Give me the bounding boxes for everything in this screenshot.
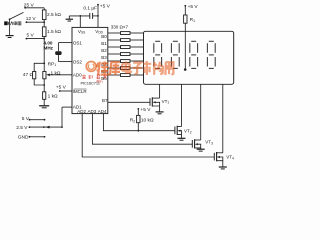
wire MCLR +5V [60, 90, 72, 92]
svg-text:lMCLR: lMCLR [73, 89, 88, 94]
transistor VT3 [192, 139, 200, 149]
wire OS2 pin [59, 61, 73, 63]
svg-text:1 kΩ: 1 kΩ [51, 70, 61, 76]
7-segment digit 3 [190, 41, 198, 68]
watermark slogan char da [103, 75, 106, 79]
node +5V top [97, 4, 99, 6]
wire AD1 down [61, 107, 63, 127]
junction cap +5V [97, 15, 99, 17]
7-segment digit 1 [154, 41, 162, 68]
wire 5V tap [26, 38, 44, 40]
wire B1 [108, 39, 121, 41]
wire B3 [108, 53, 121, 55]
label input power char1 [4, 21, 9, 25]
wire AD1 pin [62, 106, 72, 108]
wire B0 [108, 32, 121, 34]
wire B6 [108, 74, 121, 76]
chip U1 PIC16C711 [72, 27, 108, 113]
label input power char4 [18, 22, 21, 25]
wire R1 to display dp [184, 23, 186, 69]
node 5V [26, 38, 28, 40]
svg-text:AD0: AD0 [73, 72, 82, 77]
wire switch common down to ground [9, 19, 11, 35]
svg-text:10 kΩ: 10 kΩ [141, 118, 154, 124]
wire AD4 to VT2 gate [103, 114, 174, 131]
svg-text:+5 V: +5 V [100, 3, 111, 9]
watermark char chang [153, 62, 163, 75]
node 2.5V row left [29, 126, 31, 128]
resistor R(2.5k) [42, 10, 46, 20]
node 25V [24, 7, 26, 9]
wire crystal branch lower [58, 55, 60, 62]
arrow AD1 to 2.5V row [45, 126, 49, 129]
svg-text:5 V: 5 V [22, 116, 30, 122]
watermark slogan char zui [97, 75, 100, 79]
junction AD1 2.5V [61, 126, 63, 128]
svg-text:47 Ω: 47 Ω [23, 72, 34, 78]
junction RP1 top [43, 62, 45, 64]
ground VT4 [219, 167, 227, 169]
svg-text:0.1 μF: 0.1 μF [83, 5, 97, 11]
ground VT1 [156, 112, 164, 114]
resistor R1 10k top right [184, 15, 187, 23]
label input power char2 [10, 22, 13, 25]
resistor 330x7 row3 [121, 53, 131, 56]
resistor 1k bottom [43, 92, 46, 100]
wire crystal branch upper [58, 43, 60, 52]
wire cap ground stub [68, 16, 70, 19]
node MCLR +5V [59, 90, 61, 92]
wire Vss [79, 16, 81, 28]
resistor R(1.5k) [42, 27, 46, 37]
wire cap ground lead [69, 15, 90, 17]
node GND row right [44, 136, 46, 138]
svg-text:B2: B2 [101, 48, 107, 53]
svg-text:MHz: MHz [44, 46, 54, 51]
svg-text:+5 V: +5 V [188, 4, 199, 10]
resistor 330x7 row0 [121, 32, 131, 35]
wire 47ohm bottom join [34, 79, 44, 85]
junction Vss cap [79, 15, 81, 17]
wire R2 top stub [137, 109, 139, 116]
wire AD2 to VT4 gate [82, 114, 214, 157]
watermark char ku [110, 62, 120, 75]
transistor VT2 [175, 126, 182, 139]
resistor R2 10k [137, 115, 140, 122]
node switch common [9, 18, 11, 20]
wire display v4 to VT4 drain [222, 84, 224, 153]
wire 5V row [30, 119, 45, 121]
7-segment digit 2 [171, 41, 179, 68]
junction R2 AD4 line [137, 130, 139, 132]
svg-text:25 V: 25 V [24, 2, 35, 8]
junction 5V bus [43, 38, 45, 40]
node 5V row left [29, 119, 31, 121]
svg-text:B1: B1 [101, 41, 107, 46]
wire AD3 to VT3 gate [92, 114, 192, 145]
wire B7 to VT1 gate [108, 101, 150, 103]
potentiometer RP1 wiper arrow [46, 74, 50, 77]
transistor VT1 [150, 97, 160, 112]
svg-text:AD3: AD3 [88, 109, 97, 114]
svg-text:2.5 V: 2.5 V [16, 125, 28, 131]
wire 12V tap [26, 21, 44, 23]
junction RP1 bottom [43, 84, 45, 86]
watermark char wang [165, 62, 173, 75]
svg-text:GND: GND [18, 134, 29, 140]
label input power char3 [14, 21, 17, 25]
resistor 330x7 row5 [121, 67, 131, 70]
node 5V row right [44, 119, 46, 121]
wire divider bus mid [43, 20, 45, 27]
resistor 330x7 row1 [121, 39, 131, 42]
resistor 330x7 row6 [121, 74, 131, 77]
ground VT3 [197, 149, 205, 151]
resistor 47ohm [33, 72, 36, 79]
node R1 +5V [184, 5, 186, 7]
watermark slogan char quan [82, 75, 86, 79]
wire B2 [108, 46, 121, 48]
node GND row left [29, 136, 31, 138]
resistor 330x7 row2 [121, 46, 131, 49]
ground main-bus [39, 106, 49, 108]
svg-text:+5 V: +5 V [140, 107, 151, 113]
switch arm [10, 12, 24, 19]
watermark char zi [132, 63, 141, 75]
svg-text:+5 V: +5 V [56, 85, 67, 91]
wire 25V to divider top [25, 7, 44, 9]
ground VT2 [178, 138, 186, 140]
watermark char dian [122, 61, 131, 72]
ground input-power [6, 36, 14, 38]
svg-text:B3: B3 [101, 55, 107, 60]
resistor 330x7 row4 [121, 60, 131, 63]
watermark logo ring [86, 62, 96, 72]
svg-text:PIC16C711: PIC16C711 [81, 80, 101, 85]
svg-text:OS2: OS2 [73, 59, 83, 64]
wire display v2 to VT2 drain [181, 84, 183, 126]
svg-text:AD4: AD4 [98, 109, 107, 114]
wire divider bus upper [43, 8, 45, 10]
watermark char shi [143, 61, 151, 75]
node R2 +5V [137, 108, 139, 110]
potentiometer RP1 body [43, 72, 46, 79]
svg-text:1.5 kΩ: 1.5 kΩ [47, 29, 61, 35]
node 2.5V row mid [43, 126, 45, 128]
ground capacitor [66, 19, 73, 21]
decimal point node [184, 68, 187, 71]
crystal 4.00MHz [55, 51, 61, 55]
wire 2.5V row [30, 126, 63, 128]
wire divider bus lower [43, 37, 45, 72]
wire OS1 pin [59, 42, 73, 44]
wire R2 bottom stub [137, 123, 139, 131]
wire cap to +5 [93, 15, 98, 17]
watermark char wei [97, 62, 109, 75]
wire pot to 1k [43, 79, 45, 92]
node 12V [26, 21, 28, 23]
svg-text:1 kΩ: 1 kΩ [48, 93, 58, 99]
wire Vdd [97, 5, 99, 28]
watermark slogan char qiu [88, 75, 92, 79]
wire GND row [30, 136, 45, 138]
junction 12V bus [43, 21, 45, 23]
svg-text:OS1: OS1 [73, 40, 83, 45]
wire R1 +5V branch [184, 6, 186, 15]
svg-text:2.5 kΩ: 2.5 kΩ [47, 12, 61, 18]
svg-text:12 V: 12 V [26, 16, 37, 22]
svg-text:330 Ω×7: 330 Ω×7 [111, 25, 129, 30]
wire RP1 branch top [34, 63, 44, 71]
wire display v3 to VT3 drain [200, 84, 202, 140]
wire B5 [108, 67, 121, 69]
wire display v1 to VT1 drain [159, 84, 161, 98]
wire 1k to ground [43, 99, 45, 106]
svg-text:B0: B0 [101, 34, 107, 39]
display module box [144, 31, 234, 84]
7-segment digit 4 [207, 41, 215, 68]
watermark tiny text [97, 80, 103, 82]
svg-text:B7: B7 [102, 98, 108, 103]
wire B4 [108, 60, 121, 62]
wire AD0 wiper [49, 74, 72, 76]
svg-text:AD2: AD2 [77, 109, 86, 114]
capacitor 0.1uF [90, 13, 93, 19]
transistor VT4 [214, 152, 223, 167]
svg-text:5 V: 5 V [27, 33, 35, 39]
